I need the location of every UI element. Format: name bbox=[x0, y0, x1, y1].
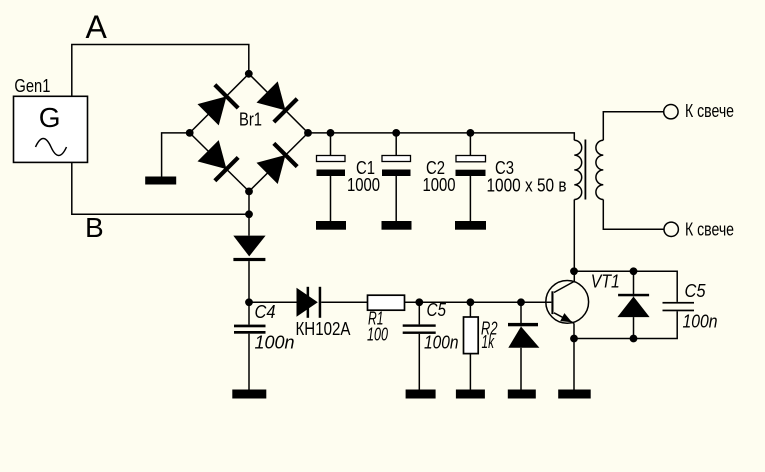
svg-text:A: A bbox=[86, 9, 108, 45]
diode VD2 (pointing up) bbox=[508, 302, 539, 389]
svg-text:К свече: К свече bbox=[685, 220, 734, 240]
capacitor C4 bbox=[234, 302, 266, 389]
wire C2 top bbox=[395, 133, 397, 156]
capacitor C1 bbox=[317, 156, 346, 222]
wire R1 to base (through C5, R2, VD nodes) bbox=[405, 301, 552, 303]
capacitor C2 bbox=[382, 156, 411, 222]
junction VD3 bottom bbox=[630, 335, 638, 343]
terminal (bottom, to spark plug) bbox=[664, 222, 678, 236]
junction B wire bbox=[245, 210, 253, 218]
svg-text:VT1: VT1 bbox=[591, 272, 620, 292]
junction C1 bbox=[327, 129, 335, 137]
svg-text:100n: 100n bbox=[683, 312, 718, 332]
ground (C4) bbox=[232, 390, 266, 399]
svg-text:G: G bbox=[39, 102, 61, 133]
dinistor KN102A bbox=[297, 287, 322, 318]
junction VD3 top bbox=[630, 267, 638, 275]
wire transformer primary to collector node bbox=[573, 200, 575, 282]
junction R2 bbox=[467, 298, 475, 306]
junction bridge left bbox=[186, 129, 194, 137]
svg-text:К свече: К свече bbox=[685, 101, 734, 121]
wire emitter to ground bbox=[573, 323, 575, 389]
svg-text:1000: 1000 bbox=[347, 175, 380, 195]
wire B (generator bottom to B junction) bbox=[72, 162, 249, 214]
junction bridge right bbox=[304, 129, 312, 137]
junction VD2 bbox=[517, 298, 525, 306]
svg-text:1k: 1k bbox=[482, 332, 495, 352]
junction bridge bottom bbox=[245, 188, 253, 196]
junction collector bbox=[570, 267, 578, 275]
ground (C1) bbox=[316, 221, 346, 230]
terminal (top, to spark plug) bbox=[664, 105, 678, 119]
diode Br1 bottom-left bbox=[196, 139, 239, 182]
svg-text:B: B bbox=[85, 212, 104, 243]
wire secondary bottom to terminal bbox=[603, 200, 670, 230]
resistor R1 bbox=[368, 295, 405, 310]
junction C3 bbox=[467, 129, 475, 137]
svg-text:100: 100 bbox=[367, 325, 388, 345]
svg-text:C5: C5 bbox=[685, 281, 707, 301]
junction C2 bbox=[392, 129, 400, 137]
svg-text:КН102А: КН102А bbox=[296, 319, 351, 339]
wire A (generator top to bridge top) bbox=[72, 45, 249, 97]
wire dinistor to R1 bbox=[321, 301, 367, 303]
wire diode to C4 node bbox=[248, 261, 250, 302]
ground (C3) bbox=[455, 221, 486, 230]
wire bridge arm bottom-left bbox=[190, 133, 249, 192]
wire bridge arm bottom-right bbox=[249, 133, 308, 192]
svg-text:Br1: Br1 bbox=[239, 110, 262, 130]
wire top rail (bridge right node to transformer) bbox=[308, 133, 574, 140]
transistor VT1 bbox=[546, 281, 589, 324]
wire bottom row (C4 node to dinistor) bbox=[249, 301, 297, 303]
svg-text:100n: 100n bbox=[424, 333, 459, 353]
capacitor C3 bbox=[456, 156, 486, 222]
junction emitter bbox=[570, 335, 578, 343]
transformer T1 secondary winding bbox=[596, 140, 603, 199]
ground (VD2) bbox=[508, 390, 536, 399]
wire C5 right bottom to emitter node bbox=[574, 311, 677, 338]
svg-text:1000: 1000 bbox=[423, 175, 456, 195]
wire bridge arm top-left bbox=[190, 74, 249, 133]
transformer core bbox=[585, 140, 587, 200]
wire bridge arm top-right bbox=[249, 74, 308, 133]
diode Br1 top-right bbox=[255, 80, 298, 123]
svg-text:C5: C5 bbox=[427, 300, 447, 320]
junction C4 bbox=[245, 298, 253, 306]
ground (VT1 emitter) bbox=[558, 390, 591, 399]
ground (bridge) bbox=[145, 177, 176, 185]
transformer T1 primary winding bbox=[574, 140, 581, 199]
diode VD3 (pointing up) bbox=[617, 271, 649, 338]
svg-text:1000 x 50 в: 1000 x 50 в bbox=[487, 176, 567, 196]
resistor R2 bbox=[464, 302, 479, 389]
ground (C5 bottom) bbox=[406, 390, 436, 399]
svg-text:Gen1: Gen1 bbox=[14, 76, 50, 96]
diode VD1 (below bridge, pointing down) bbox=[233, 236, 265, 262]
svg-text:C4: C4 bbox=[255, 302, 276, 322]
diode Br1 top-left bbox=[196, 83, 239, 126]
junction C5 bbox=[415, 298, 423, 306]
wire C1 top bbox=[330, 133, 332, 156]
capacitor C5 (right) bbox=[663, 302, 695, 311]
diode Br1 bottom-right bbox=[255, 142, 298, 185]
wire C3 top bbox=[469, 133, 471, 156]
wire bridge left node to ground bbox=[162, 133, 190, 177]
junction bridge top bbox=[245, 70, 253, 78]
wire bridge bottom to diode bbox=[248, 191, 250, 235]
ground (R2) bbox=[456, 390, 485, 399]
wire collector node to C5 right top bbox=[574, 271, 677, 302]
capacitor C5 (bottom) bbox=[403, 302, 436, 389]
ground (C2) bbox=[382, 221, 412, 230]
svg-text:100n: 100n bbox=[255, 333, 295, 353]
wire secondary top to terminal bbox=[603, 112, 670, 141]
generator Gen1 bbox=[14, 96, 88, 162]
